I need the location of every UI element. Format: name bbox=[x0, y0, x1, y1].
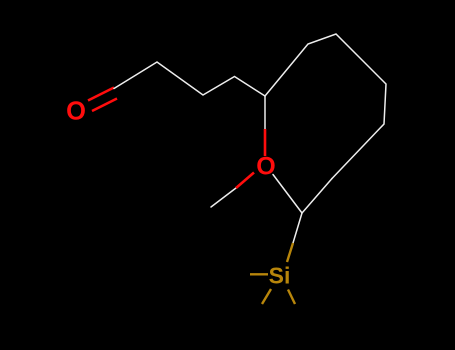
chain from carbonyl to C2 bbox=[114, 62, 265, 96]
ring bbox=[265, 34, 386, 179]
svg-text:Si: Si bbox=[269, 263, 291, 289]
G to C* bbox=[302, 179, 332, 214]
golden bonds bbox=[250, 243, 295, 304]
O2 down-left bbox=[236, 173, 254, 189]
lower-right methyl bbox=[288, 290, 295, 305]
CH2-Si upper part bbox=[287, 243, 293, 262]
white carbon skeleton bbox=[114, 34, 386, 243]
C* to O2 bbox=[273, 175, 302, 214]
O2 up to C1 bbox=[264, 129, 267, 156]
ethyl tail white part bbox=[211, 188, 236, 207]
lower-left methyl bbox=[262, 289, 271, 304]
svg-text:O: O bbox=[66, 98, 86, 126]
svg-text:O: O bbox=[256, 153, 275, 181]
C* down to CH2(Si) bbox=[293, 213, 302, 243]
C=O double bond (red) bbox=[88, 88, 117, 112]
left methyl bbox=[250, 273, 268, 275]
red bonds at ether O bbox=[236, 129, 265, 188]
C1-C2 vertical bbox=[264, 96, 266, 130]
